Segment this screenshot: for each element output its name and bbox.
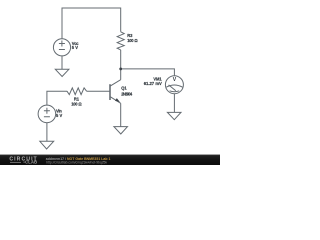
wire Vin to ground <box>46 123 48 142</box>
svg-text:5 V: 5 V <box>56 113 62 118</box>
svg-text:100 Ω: 100 Ω <box>127 38 138 43</box>
svg-text:2N3904: 2N3904 <box>121 91 133 96</box>
resistor R1 <box>67 88 87 95</box>
wire Vin to R1 <box>47 91 67 105</box>
svg-text:Q1: Q1 <box>121 85 127 90</box>
voltage source Vin <box>38 105 56 123</box>
ground (VM1) <box>167 112 181 119</box>
wire R1 to base <box>87 90 110 92</box>
wire emitter to ground <box>120 103 122 126</box>
ground (Vin) <box>40 141 54 149</box>
node junction dot <box>119 68 122 71</box>
voltage source Vcc <box>53 39 70 56</box>
svg-text:100 Ω: 100 Ω <box>71 102 82 107</box>
wire R3 to collector node <box>120 50 122 80</box>
transistor Q1 <box>110 80 121 104</box>
voltmeter VM1 <box>165 76 183 94</box>
wire node to voltmeter <box>121 69 175 76</box>
wire VM1 to ground <box>173 94 175 113</box>
svg-text:5 V: 5 V <box>72 45 78 50</box>
svg-text:▪CLAB: ▪CLAB <box>24 160 38 165</box>
svg-text:http://circuitlab.com/cmq23w4/: http://circuitlab.com/cmq23w4/not-9bq25k <box>46 160 107 164</box>
resistor R3 <box>117 32 124 50</box>
svg-text:61.27 mV: 61.27 mV <box>144 81 162 86</box>
watermark bar <box>0 155 220 166</box>
wire Vcc to ground <box>61 56 63 69</box>
ground (Q1 emitter) <box>114 127 128 134</box>
svg-text:V: V <box>173 77 177 83</box>
wire Vcc to top rail and down to R3 <box>62 8 121 39</box>
ground (Vcc) <box>55 69 69 76</box>
